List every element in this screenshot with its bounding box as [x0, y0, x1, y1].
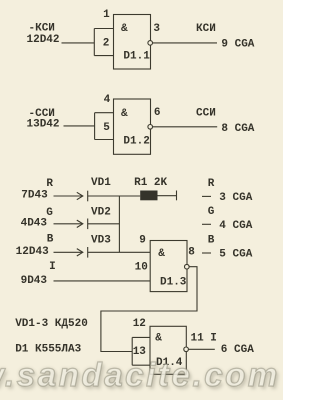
svg-text:VD3: VD3	[91, 235, 111, 247]
svg-text:6 CGA: 6 CGA	[221, 344, 254, 356]
svg-text:КСИ: КСИ	[196, 23, 216, 35]
svg-text:G: G	[46, 207, 53, 219]
svg-text:8: 8	[188, 247, 195, 259]
svg-text:VD2: VD2	[91, 207, 111, 219]
svg-text:&: &	[121, 108, 128, 120]
wire 12D42 to D1.1 inputs	[62, 42, 95, 44]
svg-text:I: I	[49, 261, 56, 273]
svg-text:&: &	[158, 248, 165, 260]
resistor R1 body	[140, 191, 157, 201]
arrowhead diode VD3 anode	[77, 249, 83, 256]
svg-text:B: B	[208, 235, 215, 247]
wire D1.3 output down to D1.4 inputs	[101, 267, 197, 352]
svg-text:6: 6	[154, 107, 161, 119]
terminal stub 5 CGA	[202, 252, 211, 254]
svg-text:D1.3: D1.3	[160, 276, 187, 288]
inversion bubble D1.3 pin 8	[185, 264, 190, 269]
svg-text:4: 4	[104, 94, 111, 106]
svg-text:12: 12	[133, 318, 146, 330]
input tie junction D1.2 pins 4-5	[95, 113, 114, 140]
wire 7D43 to diode VD1	[54, 195, 83, 197]
svg-text:ССИ: ССИ	[196, 108, 216, 120]
svg-text:-КСИ: -КСИ	[29, 23, 55, 35]
junction tie of diode cathodes	[118, 196, 120, 252]
wire VD1 cathode to resistor R1	[88, 195, 141, 197]
NAND gate D1.4 box	[150, 326, 186, 374]
svg-text:B: B	[47, 234, 54, 246]
wire VD3 cathode to D1.3 pin 9	[88, 251, 151, 253]
NAND gate D1.2 box	[114, 99, 151, 154]
wire 4D43 to diode VD2	[54, 223, 83, 225]
wire D1.2 output to 8 CGA	[153, 126, 218, 128]
diode VD2 cathode bar	[87, 219, 89, 230]
svg-text:10: 10	[135, 262, 148, 274]
wire VD2 cathode to tie	[88, 223, 120, 225]
svg-text:R: R	[208, 178, 215, 190]
svg-text:13D42: 13D42	[27, 118, 60, 130]
svg-text:R: R	[46, 178, 53, 190]
wire 9D43 to D1.3 pin 10	[54, 280, 151, 282]
inversion bubble D1.4 pin 11	[184, 347, 189, 352]
NAND gate D1.1 box	[114, 15, 151, 70]
svg-text:9D43: 9D43	[21, 275, 48, 287]
wire R1 to terminal bar	[158, 195, 177, 197]
terminal stub 4 CGA	[202, 223, 211, 225]
wire 13D42 to D1.2 inputs	[64, 125, 95, 127]
svg-text:4D43: 4D43	[21, 217, 48, 229]
diode VD3 cathode bar	[87, 247, 89, 258]
svg-text:R1 2K: R1 2K	[134, 177, 167, 189]
svg-text:4 CGA: 4 CGA	[219, 220, 252, 232]
diode VD1 cathode bar	[87, 191, 89, 202]
svg-text:D1.2: D1.2	[123, 136, 149, 148]
svg-text:12D42: 12D42	[27, 34, 60, 46]
svg-text:12D43: 12D43	[16, 246, 49, 258]
input tie junction D1.1 pins 1-2	[94, 29, 113, 56]
svg-text:VD1-3 КД520: VD1-3 КД520	[15, 318, 88, 330]
svg-text:8 CGA: 8 CGA	[221, 123, 254, 135]
watermark www.sandacite.com	[0, 358, 280, 391]
svg-text:VD1: VD1	[91, 177, 111, 189]
svg-text:1: 1	[103, 9, 110, 21]
svg-text:11 I: 11 I	[191, 332, 217, 344]
inversion bubble D1.1 pin 3	[148, 41, 153, 46]
arrowhead diode VD2 anode	[77, 220, 83, 227]
inversion bubble D1.2 pin 6	[148, 125, 153, 130]
svg-text:G: G	[208, 206, 215, 218]
svg-text:D1.1: D1.1	[123, 51, 150, 63]
arrowhead diode VD1 anode	[77, 192, 83, 199]
svg-text:5 CGA: 5 CGA	[219, 249, 252, 261]
wire D1.1 output to 9 CGA	[153, 42, 217, 44]
svg-text:9: 9	[139, 235, 146, 247]
svg-text:5: 5	[103, 122, 110, 134]
svg-text:3: 3	[153, 23, 160, 35]
svg-text:3 CGA: 3 CGA	[219, 192, 252, 204]
NAND gate D1.3 box	[150, 241, 187, 292]
wire D1.4 output to 6 CGA	[189, 348, 215, 350]
svg-text:2: 2	[103, 38, 110, 50]
svg-text:D1 К555ЛА3: D1 К555ЛА3	[15, 344, 81, 356]
wire 12D43 to diode VD3	[54, 251, 83, 253]
svg-text:&: &	[155, 333, 162, 345]
svg-text:7D43: 7D43	[21, 190, 48, 202]
terminal bar after R1	[176, 191, 178, 201]
terminal stub 3 CGA	[202, 195, 211, 197]
svg-text:&: &	[121, 23, 128, 35]
svg-text:9 CGA: 9 CGA	[221, 39, 254, 51]
input tie junction D1.4 pins 12-13	[132, 337, 150, 365]
